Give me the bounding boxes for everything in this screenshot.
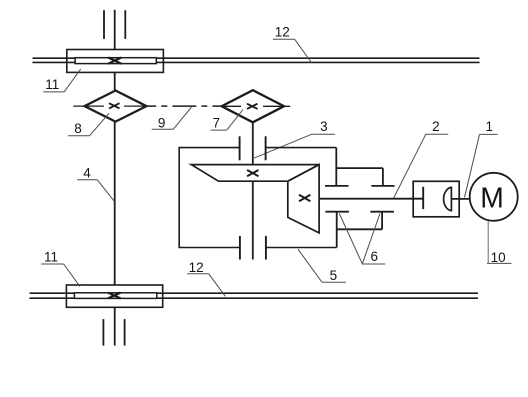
axle shaft 12 (top half-axle)	[33, 58, 480, 62]
axle shaft 12 (bottom half-axle)	[30, 293, 479, 298]
wheel hub lines (bottom wheel)	[103, 307, 124, 345]
label 11 (bottom) with leader	[41, 249, 80, 286]
label 7 with leader	[211, 110, 244, 131]
bearing marks at gearbox top	[240, 136, 266, 160]
clutch 2 housing	[413, 181, 459, 217]
label 2 with leader	[394, 119, 449, 198]
bevel pinion cross mark	[299, 195, 310, 201]
clutch 2 cup	[444, 187, 452, 210]
svg-text:9: 9	[158, 115, 166, 130]
label 5 with leader	[298, 249, 346, 283]
motor 1 circle	[470, 173, 518, 221]
wheel 11 (top) inner band	[75, 58, 156, 64]
svg-text:6: 6	[370, 249, 378, 264]
gear pair 6 (upper gears)	[325, 148, 395, 186]
crown gear cross mark	[247, 170, 258, 176]
wheel 11 (bottom) inner band	[74, 293, 156, 299]
svg-text:5: 5	[330, 268, 338, 283]
svg-text:11: 11	[45, 77, 59, 92]
svg-text:8: 8	[74, 121, 82, 136]
gearbox housing 5	[179, 148, 337, 248]
output shaft (clutch to motor)	[451, 198, 469, 200]
svg-text:11: 11	[44, 249, 58, 264]
wheel hub lines (top wheel)	[104, 10, 125, 50]
svg-text:3: 3	[320, 119, 328, 134]
gear pair 6 (lower gears)	[325, 212, 394, 248]
clutch 2 pressure bar	[422, 187, 424, 209]
differential 7 axis line	[224, 105, 290, 107]
differential 8 diamond	[85, 91, 147, 122]
svg-text:M: M	[480, 182, 504, 214]
differential 7 diamond	[222, 90, 285, 122]
label 9 with leader	[152, 107, 192, 130]
label 12 (bottom) with leader	[187, 260, 225, 296]
label 11 (top) with leader	[43, 69, 80, 92]
wheel 11 (top) cross mark	[108, 58, 121, 64]
output shaft (gearbox to clutch)	[319, 198, 423, 200]
svg-text:7: 7	[212, 116, 220, 131]
label 6 with twin leaders	[339, 214, 385, 265]
input shaft 3 (vertical, into gearbox)	[252, 122, 254, 259]
wheel 11 (bottom) cross mark	[108, 293, 121, 299]
wheel 11 (top) outer housing	[67, 50, 164, 73]
label 4 with leader	[77, 165, 114, 201]
differential 8 axis line	[73, 105, 146, 107]
propeller shaft 4	[114, 122, 116, 286]
differential 8 cross	[109, 103, 120, 108]
svg-text:2: 2	[432, 119, 440, 134]
svg-text:10: 10	[491, 250, 506, 265]
label 8 with leader	[68, 113, 109, 136]
label 3 with leader	[253, 119, 335, 159]
wheel 11 (bottom) outer housing	[66, 285, 162, 307]
svg-text:1: 1	[486, 119, 494, 134]
bevel crown gear on input shaft (3)	[191, 165, 319, 182]
bearing marks at gearbox bottom	[240, 236, 266, 260]
bevel pinion on output shaft	[288, 165, 319, 233]
dash-dot link 9 between differentials	[147, 105, 222, 107]
svg-text:4: 4	[83, 165, 91, 180]
differential 7 cross	[247, 104, 258, 109]
svg-text:12: 12	[189, 260, 204, 275]
label 1 with leader	[465, 119, 498, 198]
svg-text:12: 12	[275, 24, 290, 39]
shaft: top wheel to differential 8	[114, 72, 116, 91]
label 12 (top) with leader	[273, 24, 312, 62]
label 10 with leader	[487, 221, 512, 265]
